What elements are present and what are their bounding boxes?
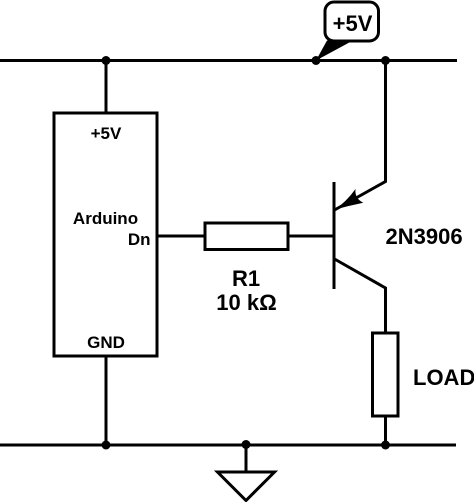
svg-text:Dn: Dn [128, 230, 151, 249]
wire ground stem [245, 445, 248, 472]
wire Dn pin to resistor R1 [157, 235, 205, 238]
svg-text:+5V: +5V [91, 124, 122, 143]
+5V net label callout box [316, 2, 379, 61]
svg-text:R1: R1 [232, 266, 260, 291]
svg-text:Arduino: Arduino [73, 209, 138, 228]
svg-text:10 kΩ: 10 kΩ [216, 290, 276, 315]
junction dot on top rail at emitter branch [381, 56, 390, 65]
junction dot on top rail at +5V callout [312, 56, 321, 65]
wire LOAD to bottom rail [384, 416, 387, 445]
junction dot on top rail above Arduino [102, 56, 111, 65]
wire top rail to Arduino +5V pin [105, 61, 108, 114]
transistor Q1 collector with wire to LOAD [335, 259, 386, 333]
resistor R1 body [205, 223, 288, 250]
Arduino box U1 [54, 113, 157, 356]
ground symbol triangle [218, 472, 275, 501]
transistor Q1 emitter with wire to top rail [335, 61, 386, 211]
transistor Q1 emitter arrow (PNP, pointing into base) [335, 189, 363, 210]
svg-text:2N3906: 2N3906 [386, 224, 463, 249]
svg-text:GND: GND [87, 333, 125, 352]
wire Arduino GND to bottom rail [105, 356, 108, 445]
wire top +5V rail [0, 59, 457, 62]
wire resistor R1 to transistor base [288, 235, 333, 238]
svg-text:+5V: +5V [333, 11, 373, 36]
transistor Q1 base bar [333, 182, 336, 289]
junction dot bottom rail at Arduino GND [102, 441, 111, 450]
junction dot bottom rail at ground symbol [242, 440, 251, 449]
wire bottom ground rail [0, 444, 456, 447]
svg-text:LOAD: LOAD [413, 365, 474, 390]
LOAD resistor body [373, 333, 399, 416]
junction dot bottom rail at LOAD [381, 441, 390, 450]
